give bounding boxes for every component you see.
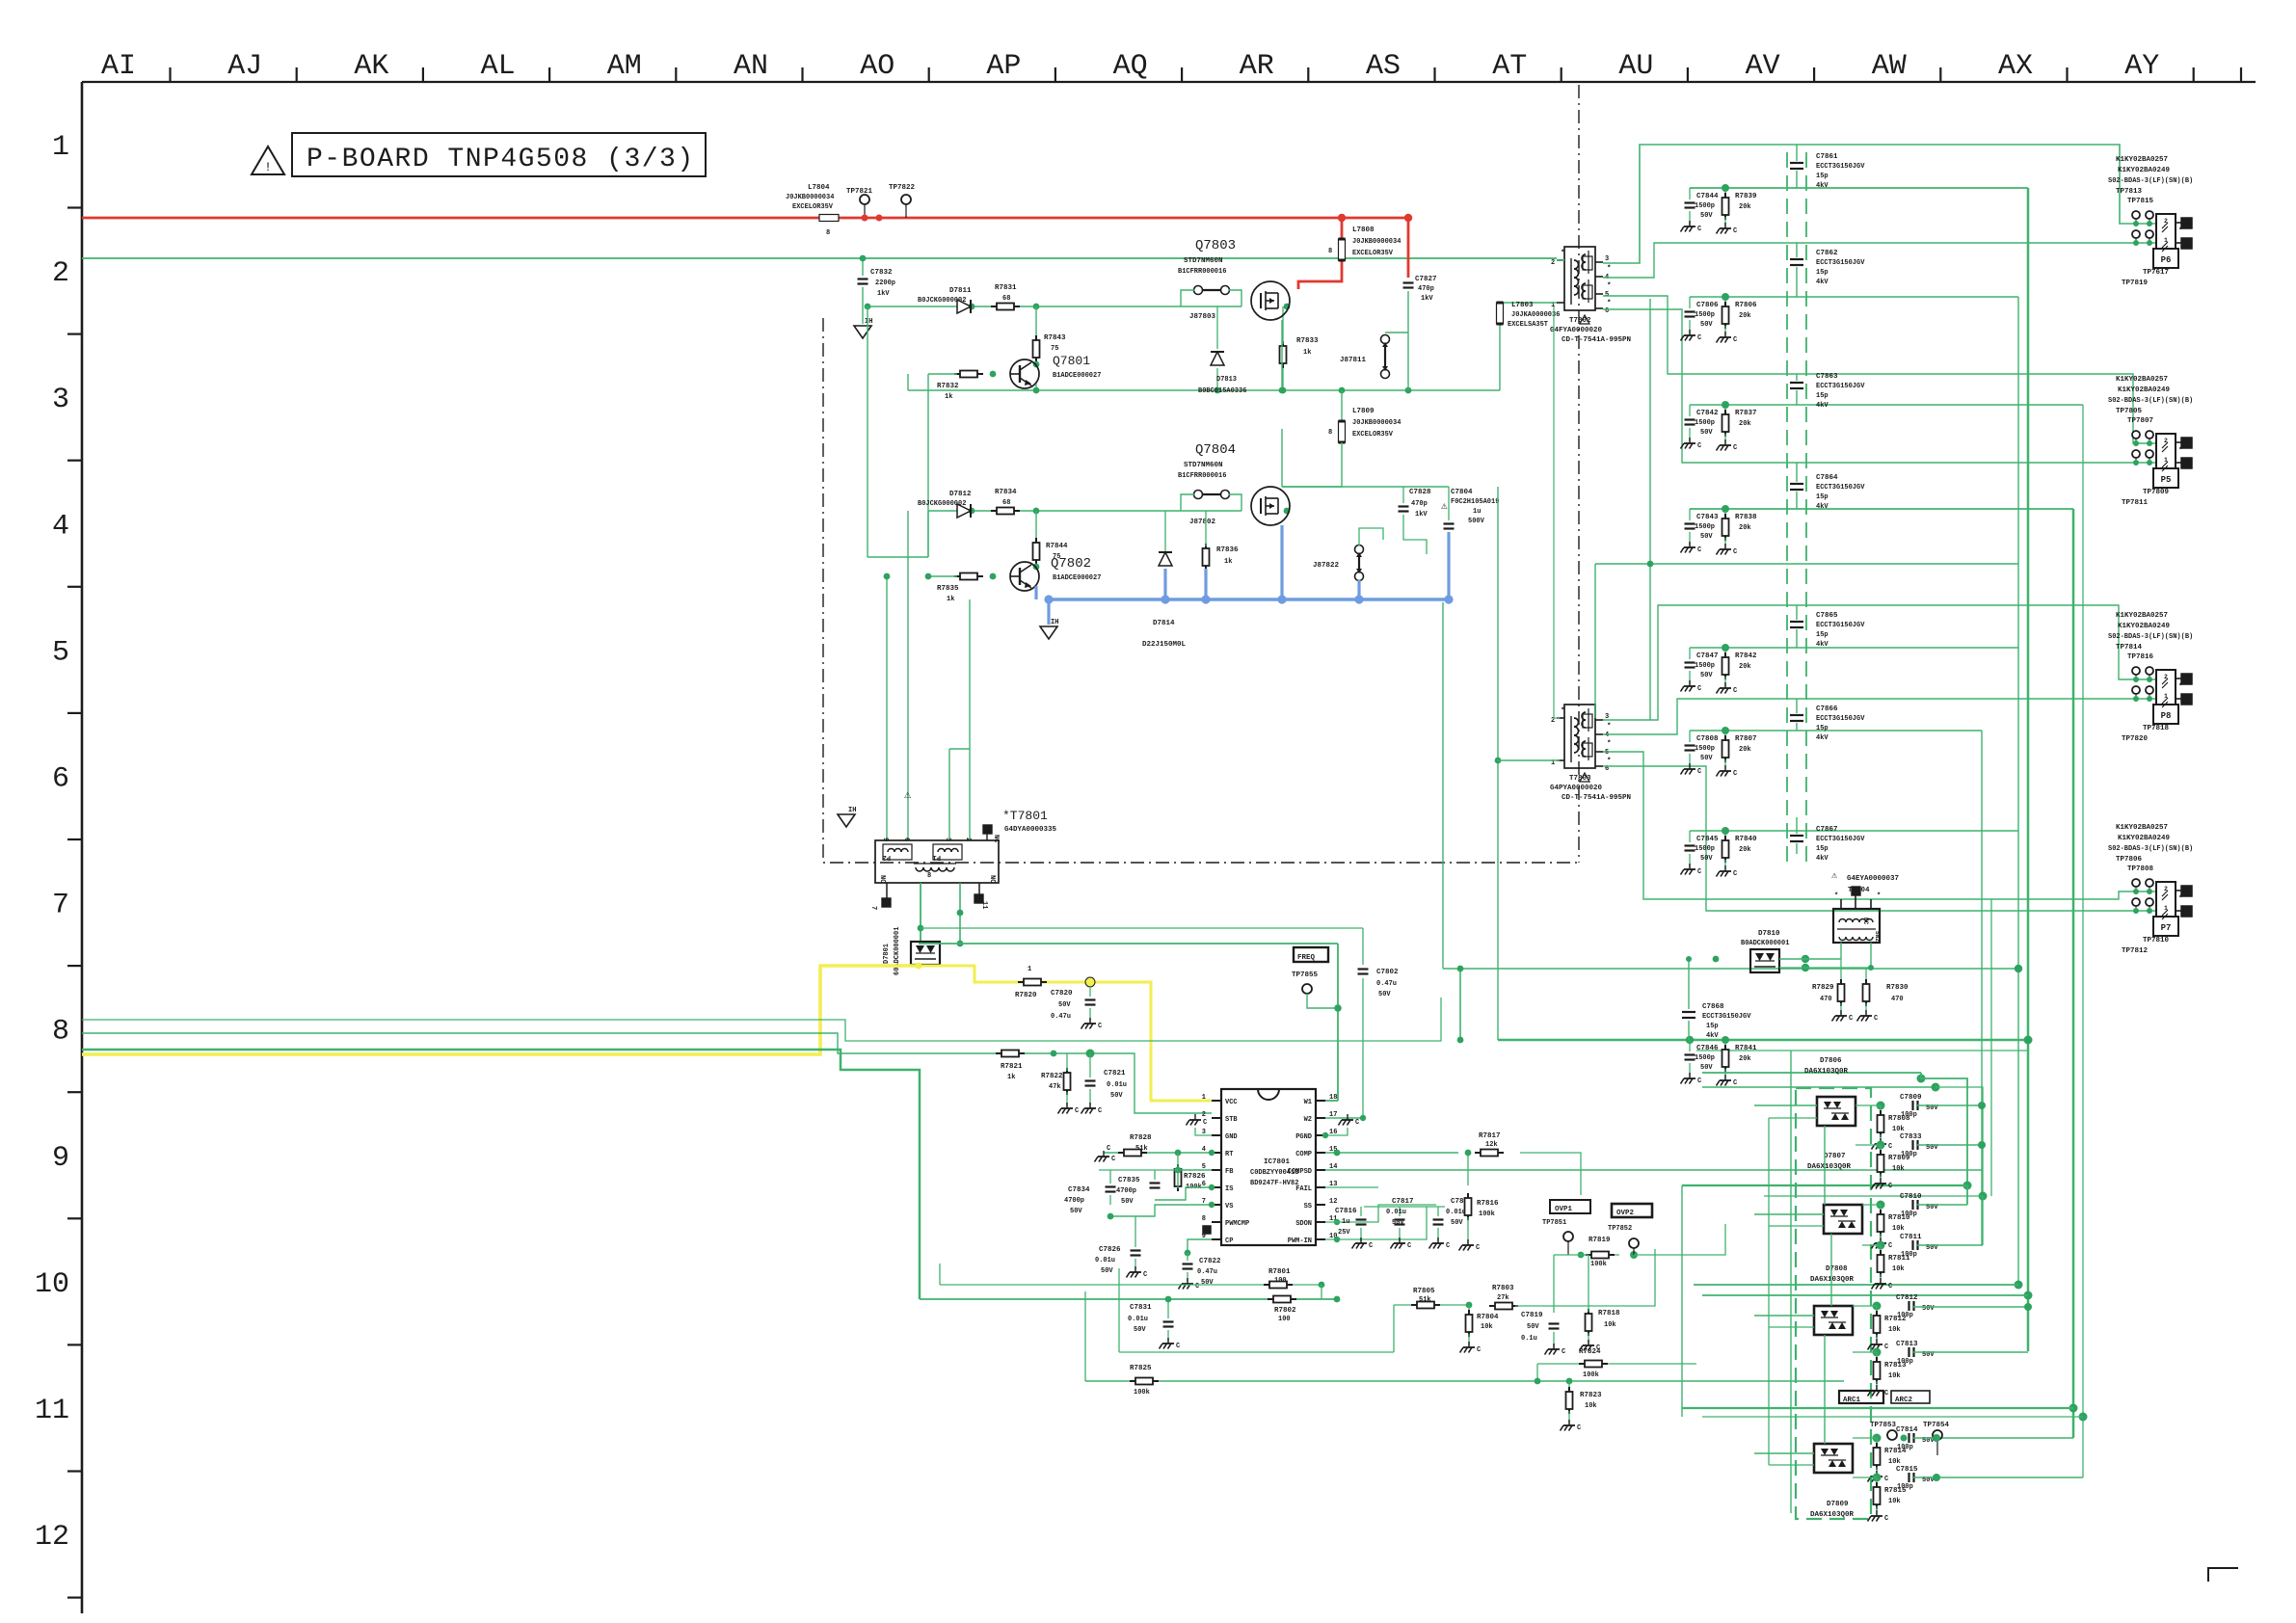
svg-text:2200p: 2200p (875, 279, 895, 287)
svg-text:R7840: R7840 (1735, 836, 1757, 843)
svg-text:100k: 100k (1590, 1261, 1607, 1268)
svg-text:K1KY02BA0257: K1KY02BA0257 (2116, 156, 2168, 164)
svg-text:50V: 50V (1700, 672, 1713, 679)
svg-text:2: 2 (964, 838, 972, 841)
svg-text:8: 8 (1328, 429, 1332, 437)
svg-text:1500p: 1500p (1695, 745, 1715, 753)
svg-text:D7813: D7813 (1216, 376, 1237, 384)
svg-text:⚠: ⚠ (1441, 501, 1448, 513)
svg-text:C: C (1355, 1119, 1359, 1127)
svg-text:K1KY02BA0257: K1KY02BA0257 (2116, 376, 2168, 384)
svg-text:C7821: C7821 (1104, 1070, 1126, 1078)
svg-text:AO: AO (860, 50, 894, 83)
svg-text:G4FYA0000020: G4FYA0000020 (1550, 327, 1603, 334)
svg-text:TP7617: TP7617 (2143, 269, 2169, 277)
svg-text:20k: 20k (1739, 846, 1751, 854)
svg-text:K1KY02BA0249: K1KY02BA0249 (2118, 167, 2171, 174)
svg-text:50V: 50V (1392, 1219, 1404, 1227)
svg-text:ECCT3G150JGV: ECCT3G150JGV (1702, 1013, 1751, 1021)
svg-text:R7836: R7836 (1216, 546, 1239, 554)
svg-text:R7843: R7843 (1044, 334, 1066, 342)
svg-text:R7807: R7807 (1735, 735, 1757, 743)
svg-text:20k: 20k (1739, 312, 1751, 320)
svg-text:⚠: ⚠ (1831, 871, 1838, 882)
svg-text:C: C (1098, 1023, 1102, 1030)
svg-text:P1: P1 (933, 853, 941, 861)
svg-text:C: C (1888, 1283, 1892, 1290)
svg-text:C: C (1884, 1390, 1888, 1397)
svg-text:C: C (1577, 1424, 1581, 1432)
svg-text:1: 1 (1202, 1094, 1206, 1102)
svg-text:15p: 15p (1816, 269, 1829, 277)
svg-text:C7809: C7809 (1900, 1094, 1922, 1102)
svg-text:50V: 50V (1700, 855, 1713, 863)
svg-text:AJ: AJ (227, 50, 262, 83)
svg-text:R7841: R7841 (1735, 1045, 1757, 1052)
svg-text:C: C (1446, 1242, 1450, 1250)
svg-text:SDON: SDON (1295, 1220, 1312, 1228)
svg-text:C: C (1733, 1079, 1737, 1087)
svg-text:2: 2 (1202, 1111, 1206, 1119)
svg-text:C7833: C7833 (1900, 1133, 1922, 1141)
svg-text:D7809: D7809 (1827, 1501, 1849, 1508)
svg-text:6: 6 (1605, 307, 1609, 315)
svg-text:R7806: R7806 (1735, 302, 1757, 309)
svg-text:C: C (1697, 768, 1701, 776)
svg-text:0.01u: 0.01u (1128, 1316, 1148, 1323)
svg-text:TP7809: TP7809 (2143, 489, 2170, 496)
svg-text:C: C (1697, 334, 1701, 342)
svg-text:R7829: R7829 (1812, 984, 1834, 992)
svg-text:C: C (1733, 444, 1737, 452)
svg-text:TP7806: TP7806 (2116, 856, 2143, 864)
svg-text:20k: 20k (1739, 203, 1751, 211)
svg-text:C: C (1111, 1156, 1115, 1163)
svg-text:15p: 15p (1816, 493, 1829, 501)
svg-text:G4PYA0000020: G4PYA0000020 (1550, 785, 1603, 792)
svg-text:1500p: 1500p (1695, 311, 1715, 319)
svg-text:C: C (1476, 1244, 1480, 1252)
svg-text:C: C (1733, 227, 1737, 235)
svg-text:STD7NM60N: STD7NM60N (1184, 257, 1223, 265)
svg-text:100p: 100p (1897, 1444, 1913, 1451)
svg-text:C: C (1733, 548, 1737, 556)
svg-text:C7844: C7844 (1696, 193, 1719, 200)
svg-text:C7843: C7843 (1696, 514, 1719, 521)
svg-text:1500p: 1500p (1695, 523, 1715, 531)
svg-text:D7808: D7808 (1826, 1265, 1848, 1273)
svg-text:100k: 100k (1479, 1211, 1495, 1218)
svg-text:ECCT3G150JGV: ECCT3G150JGV (1816, 484, 1865, 492)
svg-text:C7810: C7810 (1900, 1193, 1922, 1201)
svg-text:EXCELOR35V: EXCELOR35V (1352, 250, 1394, 257)
svg-text:L7809: L7809 (1352, 408, 1375, 415)
svg-text:50V: 50V (1922, 1305, 1935, 1313)
svg-text:3: 3 (52, 384, 69, 416)
svg-text:50V: 50V (1700, 533, 1713, 541)
svg-text:0.1u: 0.1u (1521, 1335, 1537, 1343)
svg-text:R7817: R7817 (1479, 1132, 1501, 1140)
svg-text:B1ADCE000027: B1ADCE000027 (1053, 574, 1101, 582)
svg-text:R7834: R7834 (995, 489, 1017, 496)
svg-text:1kV: 1kV (877, 290, 890, 298)
svg-text:51k: 51k (1135, 1145, 1148, 1153)
svg-text:C7813: C7813 (1896, 1341, 1918, 1348)
svg-text:L7808: L7808 (1352, 226, 1375, 234)
svg-text:R7832: R7832 (937, 383, 959, 390)
svg-text:AL: AL (481, 50, 516, 83)
svg-text:GND: GND (1225, 1133, 1238, 1141)
svg-text:C: C (1888, 1183, 1892, 1190)
svg-text:ECCT3G150JGV: ECCT3G150JGV (1816, 622, 1865, 629)
svg-text:VCC: VCC (1225, 1099, 1238, 1106)
svg-text:C7817: C7817 (1392, 1198, 1414, 1206)
svg-text:R7839: R7839 (1735, 193, 1757, 200)
svg-text:R7838: R7838 (1735, 514, 1757, 521)
svg-text:15p: 15p (1706, 1023, 1719, 1030)
svg-text:STB: STB (1225, 1116, 1238, 1124)
svg-text:AN: AN (734, 50, 768, 83)
svg-text:25V: 25V (1338, 1229, 1350, 1237)
svg-text:*: * (2178, 447, 2183, 455)
svg-text:C7826: C7826 (1099, 1246, 1121, 1254)
svg-text:100k: 100k (1583, 1371, 1599, 1379)
svg-text:C: C (1733, 687, 1737, 695)
svg-text:C7804: C7804 (1451, 489, 1473, 496)
svg-text:6: 6 (902, 838, 910, 841)
svg-text:1500p: 1500p (1695, 662, 1715, 670)
svg-text:*: * (1834, 892, 1838, 900)
svg-text:15p: 15p (1816, 173, 1829, 180)
svg-text:IS: IS (1225, 1185, 1233, 1193)
svg-text:1500p: 1500p (1695, 419, 1715, 427)
svg-text:*: * (1607, 723, 1612, 731)
svg-text:*: * (1877, 892, 1881, 900)
svg-text:100p: 100p (1901, 1211, 1917, 1218)
svg-text:4kV: 4kV (1816, 734, 1829, 742)
svg-text:50V: 50V (1121, 1198, 1134, 1206)
svg-text:C: C (1697, 685, 1701, 693)
svg-text:EXCELSA35T: EXCELSA35T (1508, 321, 1548, 329)
svg-text:B0BC015A0336: B0BC015A0336 (1198, 387, 1246, 395)
svg-text:ARC1: ARC1 (1843, 1397, 1861, 1404)
svg-text:R7826: R7826 (1184, 1173, 1206, 1181)
svg-text:500V: 500V (1468, 518, 1485, 525)
svg-text:50V: 50V (1201, 1279, 1214, 1287)
svg-text:12: 12 (1329, 1198, 1337, 1206)
svg-text:C7831: C7831 (1130, 1304, 1152, 1312)
svg-text:B0ADCK000001: B0ADCK000001 (1741, 940, 1789, 947)
svg-text:R7825: R7825 (1130, 1365, 1152, 1372)
svg-text:10k: 10k (1585, 1402, 1597, 1410)
svg-text:20k: 20k (1739, 524, 1751, 532)
svg-text:C: C (1203, 1119, 1207, 1127)
svg-text:5: 5 (52, 636, 69, 669)
svg-text:4kV: 4kV (1816, 641, 1829, 649)
svg-text:0.01u: 0.01u (1446, 1209, 1466, 1216)
svg-text:D7807: D7807 (1824, 1153, 1846, 1160)
svg-text:OVP1: OVP1 (1555, 1206, 1573, 1213)
svg-text:PGND: PGND (1295, 1133, 1312, 1141)
svg-text:J87811: J87811 (1340, 357, 1367, 364)
svg-text:R7819: R7819 (1589, 1237, 1611, 1244)
svg-text:J87803: J87803 (1189, 313, 1216, 321)
svg-text:C7834: C7834 (1068, 1186, 1090, 1194)
svg-text:C: C (1884, 1476, 1888, 1483)
svg-text:J0JKB0000034: J0JKB0000034 (1352, 238, 1401, 246)
svg-text:AX: AX (1998, 50, 2033, 83)
svg-text:68: 68 (1002, 499, 1010, 507)
svg-text:C: C (1098, 1107, 1102, 1115)
svg-text:C: C (1697, 546, 1701, 554)
svg-text:1k: 1k (947, 596, 954, 603)
svg-text:R7804: R7804 (1477, 1314, 1499, 1321)
svg-text:Q7802: Q7802 (1051, 556, 1091, 572)
svg-text:K1KY02BA0249: K1KY02BA0249 (2118, 623, 2171, 630)
svg-text:50V: 50V (1700, 321, 1713, 329)
svg-text:C: C (1849, 1015, 1853, 1023)
svg-text:TP7815: TP7815 (2127, 198, 2154, 205)
svg-text:*: * (1561, 707, 1565, 715)
svg-text:C: C (1143, 1271, 1147, 1279)
svg-text:SN2: SN2 (1874, 931, 1881, 942)
svg-text:12k: 12k (1485, 1141, 1498, 1149)
svg-text:*: * (2178, 227, 2183, 235)
svg-text:NC: NC (878, 875, 886, 883)
svg-text:SS: SS (1304, 1203, 1312, 1211)
svg-text:C: C (1874, 1015, 1878, 1023)
svg-text:5: 5 (1605, 749, 1609, 757)
svg-text:L7803: L7803 (1511, 302, 1534, 309)
svg-text:ARC2: ARC2 (1895, 1397, 1913, 1404)
svg-text:4kV: 4kV (1816, 182, 1829, 190)
svg-text:20k: 20k (1739, 420, 1751, 428)
svg-text:W2: W2 (1304, 1116, 1312, 1124)
svg-text:C7847: C7847 (1696, 652, 1719, 660)
svg-text:AK: AK (354, 50, 388, 83)
svg-text:C7812: C7812 (1896, 1294, 1918, 1302)
svg-text:1500p: 1500p (1695, 1054, 1715, 1062)
svg-text:AT: AT (1492, 50, 1527, 83)
svg-text:C: C (1369, 1242, 1373, 1250)
svg-text:R7837: R7837 (1735, 410, 1757, 417)
svg-text:K1KY02BA0249: K1KY02BA0249 (2118, 386, 2171, 394)
svg-text:*: * (1607, 300, 1612, 307)
svg-text:10: 10 (35, 1268, 69, 1301)
svg-text:B1CFRR000016: B1CFRR000016 (1178, 472, 1226, 480)
svg-text:TP7822: TP7822 (889, 184, 916, 192)
svg-text:TP7852: TP7852 (1608, 1225, 1632, 1233)
svg-text:C: C (1477, 1346, 1481, 1354)
svg-text:R7802: R7802 (1274, 1307, 1296, 1315)
svg-text:IC7801: IC7801 (1264, 1158, 1291, 1166)
svg-text:R7842: R7842 (1735, 652, 1757, 660)
svg-text:4: 4 (1605, 732, 1609, 739)
svg-text:*: * (2178, 895, 2183, 903)
svg-text:10k: 10k (1888, 1498, 1901, 1505)
svg-text:PWMCMP: PWMCMP (1225, 1220, 1249, 1228)
svg-text:100k: 100k (1134, 1389, 1150, 1397)
svg-text:C7863: C7863 (1816, 373, 1838, 381)
svg-text:1k: 1k (1224, 558, 1232, 566)
svg-text:10k: 10k (1892, 1265, 1905, 1273)
svg-text:DA6X103Q0R: DA6X103Q0R (1804, 1068, 1849, 1076)
svg-text:EXCELOR35V: EXCELOR35V (1352, 431, 1394, 439)
svg-text:50V: 50V (1110, 1092, 1123, 1100)
svg-text:1500p: 1500p (1695, 845, 1715, 853)
svg-text:TP7854: TP7854 (1923, 1422, 1950, 1429)
svg-text:10k: 10k (1604, 1321, 1616, 1329)
svg-text:R7824: R7824 (1579, 1348, 1601, 1356)
svg-text:NC: NC (992, 835, 1000, 842)
svg-text:R7816: R7816 (1477, 1200, 1499, 1208)
svg-text:STD7NM60N: STD7NM60N (1184, 462, 1223, 469)
svg-text:100p: 100p (1897, 1358, 1913, 1366)
svg-text:C: C (1733, 770, 1737, 778)
svg-text:68: 68 (1002, 295, 1010, 303)
svg-text:1500p: 1500p (1695, 202, 1715, 210)
svg-text:0.01u: 0.01u (1107, 1081, 1127, 1089)
svg-text:TP7853: TP7853 (1870, 1422, 1897, 1429)
svg-text:4kV: 4kV (1816, 503, 1829, 511)
svg-text:IH: IH (865, 318, 872, 326)
svg-text:*: * (2178, 683, 2183, 691)
svg-text:TP7818: TP7818 (2143, 725, 2170, 732)
svg-text:*T7801: *T7801 (1002, 809, 1048, 823)
svg-text:C7819: C7819 (1521, 1312, 1543, 1319)
svg-text:4kV: 4kV (1816, 402, 1829, 410)
svg-text:C: C (1562, 1348, 1565, 1356)
svg-text:1kV: 1kV (1421, 295, 1433, 303)
svg-text:9: 9 (881, 838, 889, 841)
svg-text:PWM-IN: PWM-IN (1288, 1237, 1312, 1245)
svg-text:R7801: R7801 (1268, 1268, 1291, 1276)
svg-text:C7861: C7861 (1816, 153, 1838, 161)
svg-text:J87822: J87822 (1313, 562, 1340, 570)
svg-text:AU: AU (1618, 50, 1653, 83)
svg-text:C7866: C7866 (1816, 705, 1838, 713)
svg-text:TP7851: TP7851 (1542, 1219, 1566, 1227)
svg-text:50V: 50V (1058, 1001, 1071, 1009)
svg-text:4kV: 4kV (1816, 855, 1829, 863)
svg-text:NC: NC (988, 875, 996, 883)
svg-text:TP7812: TP7812 (2122, 947, 2149, 955)
svg-text:FB: FB (1225, 1168, 1234, 1176)
svg-text:10k: 10k (1892, 1165, 1905, 1173)
svg-text:C7842: C7842 (1696, 410, 1719, 417)
svg-text:8: 8 (826, 229, 830, 237)
svg-text:C: C (1176, 1343, 1180, 1350)
svg-text:C7822: C7822 (1199, 1258, 1221, 1265)
svg-text:CD-T-7541A-995PN: CD-T-7541A-995PN (1562, 794, 1631, 802)
svg-text:AR: AR (1240, 50, 1274, 83)
svg-text:C: C (1733, 336, 1737, 344)
svg-text:75: 75 (1051, 345, 1058, 353)
svg-text:Q7803: Q7803 (1195, 238, 1236, 253)
svg-text:C7846: C7846 (1696, 1045, 1719, 1052)
svg-text:470: 470 (1820, 996, 1832, 1003)
svg-text:D7814: D7814 (1153, 620, 1175, 627)
svg-text:15p: 15p (1816, 392, 1829, 400)
svg-text:0.47u: 0.47u (1197, 1268, 1217, 1276)
svg-text:3: 3 (1605, 255, 1609, 263)
svg-text:12: 12 (35, 1521, 69, 1554)
svg-text:EXCELOR35V: EXCELOR35V (792, 203, 834, 211)
svg-text:50V: 50V (1378, 991, 1391, 998)
svg-text:VS: VS (1225, 1203, 1233, 1211)
svg-text:7: 7 (869, 906, 877, 910)
svg-text:D7806: D7806 (1820, 1057, 1842, 1065)
svg-text:DA6X103Q0R: DA6X103Q0R (1810, 1276, 1855, 1284)
svg-text:C: C (1075, 1107, 1079, 1115)
svg-text:C: C (1697, 1078, 1701, 1085)
svg-text:C7845: C7845 (1696, 836, 1719, 843)
svg-text:10k: 10k (1888, 1372, 1901, 1380)
svg-text:D22J150M0L: D22J150M0L (1142, 641, 1187, 649)
svg-text:P2: P2 (883, 853, 891, 861)
svg-text:IH: IH (1051, 619, 1058, 626)
svg-text:R7823: R7823 (1580, 1392, 1602, 1399)
svg-text:100p: 100p (1901, 1251, 1917, 1259)
svg-text:*: * (1561, 250, 1565, 257)
svg-text:10k: 10k (1888, 1326, 1901, 1334)
svg-text:NC: NC (1862, 918, 1869, 925)
svg-text:R7844: R7844 (1046, 543, 1068, 550)
svg-text:2: 2 (52, 257, 69, 290)
svg-text:100p: 100p (1901, 1151, 1917, 1158)
svg-text:C: C (1888, 1242, 1892, 1250)
svg-text:1k: 1k (1303, 349, 1311, 357)
svg-text:50V: 50V (1134, 1326, 1146, 1334)
svg-text:TP7819: TP7819 (2122, 279, 2149, 287)
svg-text:AW: AW (1872, 50, 1907, 83)
svg-text:C7808: C7808 (1696, 735, 1719, 743)
svg-text:1k: 1k (945, 393, 952, 401)
svg-text:TP7816: TP7816 (2127, 653, 2154, 661)
svg-text:100p: 100p (1901, 1111, 1917, 1119)
svg-text:TP7821: TP7821 (846, 188, 873, 196)
svg-text:TP7810: TP7810 (2143, 937, 2170, 945)
svg-text:TP7807: TP7807 (2127, 417, 2153, 425)
svg-text:ECCT3G150JGV: ECCT3G150JGV (1816, 836, 1865, 843)
svg-text:R7820: R7820 (1015, 992, 1037, 999)
svg-text:C7835: C7835 (1118, 1177, 1140, 1184)
svg-text:J0JKB0000034: J0JKB0000034 (786, 194, 834, 201)
svg-text:TP7855: TP7855 (1292, 971, 1319, 979)
svg-text:60ADCK000001: 60ADCK000001 (894, 927, 901, 975)
svg-text:C7820: C7820 (1051, 990, 1073, 998)
svg-text:C7811: C7811 (1900, 1234, 1922, 1241)
svg-text:G4EYA0000037: G4EYA0000037 (1847, 875, 1899, 883)
svg-text:IH: IH (848, 807, 856, 814)
svg-text:B1ADCE000027: B1ADCE000027 (1053, 372, 1101, 380)
svg-text:C7815: C7815 (1896, 1466, 1918, 1474)
svg-text:1k: 1k (1007, 1074, 1015, 1081)
svg-text:11: 11 (35, 1395, 69, 1427)
svg-text:C7806: C7806 (1696, 302, 1719, 309)
svg-text:C: C (1107, 1145, 1110, 1153)
svg-text:0.01u: 0.01u (1095, 1257, 1115, 1264)
svg-text:8: 8 (52, 1016, 69, 1049)
svg-text:Q7804: Q7804 (1195, 442, 1236, 458)
svg-text:6: 6 (52, 763, 69, 796)
svg-text:AY: AY (2124, 50, 2159, 83)
svg-text:C7832: C7832 (870, 269, 893, 277)
svg-text:C7802: C7802 (1376, 969, 1399, 976)
svg-text:AI: AI (101, 50, 136, 83)
svg-text:F0C2H105A019: F0C2H105A019 (1451, 498, 1499, 506)
svg-text:C: C (1195, 1283, 1199, 1290)
